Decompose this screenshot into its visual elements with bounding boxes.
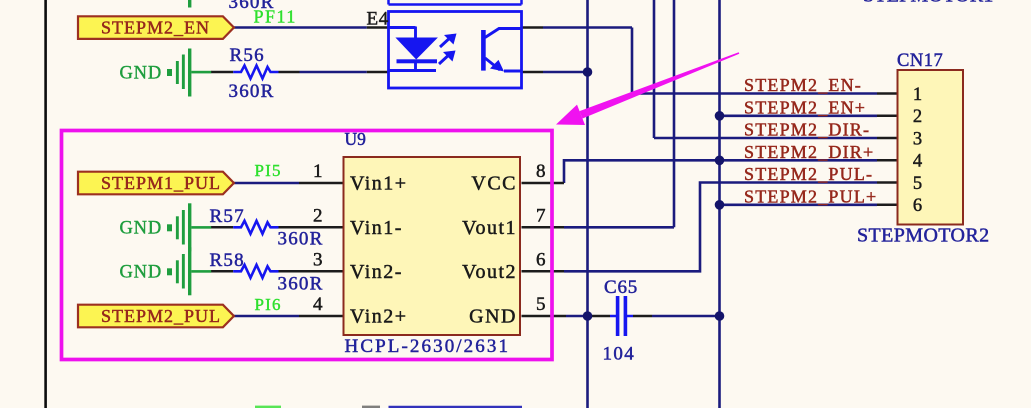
svg-text:STEPM2_PUL+: STEPM2_PUL+ [744,186,877,206]
svg-text:GND: GND [120,219,162,239]
svg-text:STEPM2_EN-: STEPM2_EN- [744,75,862,95]
svg-text:Vin2+: Vin2+ [350,306,408,328]
svg-text:CN17: CN17 [897,51,943,71]
svg-text:7: 7 [536,205,546,226]
svg-text:6: 6 [536,249,546,270]
svg-text:PF11: PF11 [254,7,297,27]
svg-text:STEPM2_DIR-: STEPM2_DIR- [744,120,870,140]
svg-text:5: 5 [536,294,546,315]
svg-text:Vin1-: Vin1- [350,217,403,239]
svg-text:Vout1: Vout1 [462,217,517,239]
svg-text:PI6: PI6 [255,295,282,314]
svg-text:3: 3 [313,249,323,270]
svg-text:8: 8 [536,161,546,182]
svg-text:6: 6 [913,196,922,216]
svg-text:104: 104 [603,344,636,365]
svg-text:E4: E4 [367,9,389,30]
svg-text:STEPM2_DIR+: STEPM2_DIR+ [744,142,874,162]
svg-text:1: 1 [313,161,323,182]
svg-text:Vout2: Vout2 [462,261,517,283]
svg-text:STEPM2_EN: STEPM2_EN [101,18,210,38]
svg-text:1: 1 [913,85,922,105]
svg-text:PI5: PI5 [255,161,282,180]
svg-text:R56: R56 [230,45,265,66]
svg-text:HCPL-2630/2631: HCPL-2630/2631 [345,336,511,357]
svg-text:4: 4 [913,152,922,172]
svg-text:C65: C65 [604,277,638,298]
svg-text:VCC: VCC [471,173,517,195]
svg-text:360R: 360R [229,81,275,102]
svg-text:STEPM2_PUL-: STEPM2_PUL- [744,164,873,184]
svg-text:STEPM2_EN+: STEPM2_EN+ [744,97,866,117]
svg-text:STEPMOTOR1: STEPMOTOR1 [863,0,994,7]
svg-text:2: 2 [313,205,323,226]
svg-text:R57: R57 [210,206,245,227]
svg-text:GND: GND [120,263,162,283]
svg-text:360R: 360R [278,273,324,294]
svg-text:STEPM1_PUL: STEPM1_PUL [101,173,221,193]
svg-text:5: 5 [913,174,922,194]
svg-text:Vin1+: Vin1+ [350,173,408,195]
svg-text:360R: 360R [278,228,324,249]
svg-text:GND: GND [469,306,517,328]
svg-text:STEPM2_PUL: STEPM2_PUL [101,306,221,326]
svg-text:Vin2-: Vin2- [350,261,403,283]
svg-text:4: 4 [313,294,323,315]
svg-text:3: 3 [913,129,922,149]
svg-text:R58: R58 [210,250,245,271]
svg-text:2: 2 [913,107,922,127]
svg-text:STEPMOTOR2: STEPMOTOR2 [857,225,990,247]
svg-text:GND: GND [120,63,162,83]
